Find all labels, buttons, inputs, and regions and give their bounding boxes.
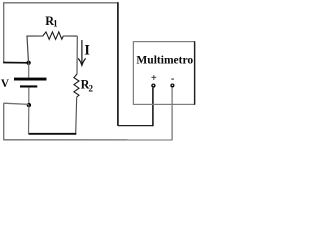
wire node left horizontal [4, 103, 29, 104]
wire tall black vertical to plus [117, 2, 119, 126]
wire R2 bottom vertical [76, 97, 77, 134]
svg-text:I: I [84, 42, 90, 58]
svg-text:+: + [151, 73, 157, 84]
wire horizontal to plus terminal [118, 125, 153, 127]
wire minus terminal vertical [171, 88, 173, 141]
battery V plate long [14, 78, 47, 81]
wire thick black to battery top node [3, 62, 28, 64]
svg-text:V: V [1, 78, 10, 90]
svg-text:1: 1 [53, 18, 58, 28]
wire plus terminal vertical [152, 88, 154, 126]
wire outer lower-left vertical [3, 103, 5, 140]
svg-text:-: - [171, 73, 175, 84]
battery V plate short [20, 85, 37, 87]
wire R1 right lead [63, 35, 77, 37]
wire R1 left lead [27, 35, 44, 37]
wire left outer vertical [3, 2, 5, 63]
node battery - junction [27, 103, 31, 107]
multimeter box U1 [133, 42, 194, 105]
wire top outer [3, 2, 118, 4]
wire battery node down to bottom return [28, 105, 30, 134]
svg-text:Multimetro: Multimetro [136, 53, 193, 67]
wire battery bottom lead [28, 87, 30, 105]
wire outer bottom [3, 139, 172, 141]
terminal minus [170, 83, 174, 87]
wire battery top lead [28, 63, 30, 78]
multimeter box right edge dark [194, 41, 196, 104]
resistor R2 [74, 74, 79, 97]
wire thick black bottom return [28, 133, 76, 135]
node battery + junction [26, 61, 30, 65]
svg-text:2: 2 [89, 84, 94, 94]
wire R2 top vertical [76, 36, 78, 74]
resistor R1 [43, 32, 64, 40]
arrow I current arrow [81, 40, 83, 64]
wire inner left vertical [27, 36, 29, 63]
terminal plus [151, 83, 155, 87]
